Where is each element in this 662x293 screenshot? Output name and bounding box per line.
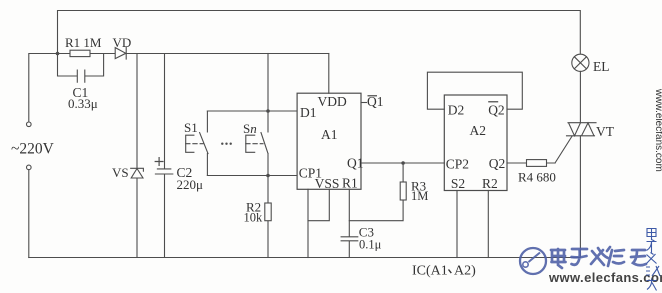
lamp EL bbox=[572, 54, 589, 71]
svg-text:R4 680: R4 680 bbox=[518, 170, 556, 185]
svg-text:VT: VT bbox=[596, 124, 615, 139]
node R3 junction bbox=[401, 161, 405, 165]
switch Sn actuator dashed link bbox=[246, 143, 263, 145]
svg-text:Q1: Q1 bbox=[347, 155, 364, 170]
svg-text:CP2: CP2 bbox=[446, 157, 469, 172]
svg-text:A2: A2 bbox=[470, 123, 487, 138]
svg-text:VSS: VSS bbox=[315, 176, 340, 191]
plus sign of C2 bbox=[155, 158, 163, 166]
wire EL to VT bbox=[579, 71, 581, 122]
svg-text:Q2: Q2 bbox=[489, 156, 506, 171]
wire S2 drop bbox=[456, 191, 458, 258]
svg-text:Sn: Sn bbox=[243, 121, 257, 136]
svg-text:R1 1M: R1 1M bbox=[65, 35, 102, 50]
resistor R4 bbox=[507, 162, 555, 164]
wire top bus bbox=[58, 11, 581, 55]
op-amp U A2 box bbox=[444, 95, 507, 191]
wire main horizontal rail bbox=[29, 54, 329, 123]
svg-text:S2: S2 bbox=[451, 176, 465, 191]
svg-text:0.33μ: 0.33μ bbox=[68, 96, 98, 111]
wire R2pin drop bbox=[487, 191, 489, 258]
resistor R2 bbox=[267, 176, 269, 258]
wire VDD drop bbox=[328, 54, 330, 94]
svg-text:VS: VS bbox=[112, 165, 129, 180]
svg-text:VDD: VDD bbox=[318, 94, 347, 109]
dots ellipsis between switches bbox=[221, 143, 232, 145]
zener VS bbox=[131, 54, 144, 258]
svg-text:IC(A1: IC(A1 bbox=[412, 264, 448, 279]
svg-text:220μ: 220μ bbox=[177, 177, 204, 192]
node switch bottom rail junction bbox=[266, 174, 270, 178]
svg-text:www.elecfans.com: www.elecfans.com bbox=[653, 88, 662, 172]
svg-text:S1: S1 bbox=[184, 120, 198, 135]
wire VSS drop bbox=[307, 189, 309, 257]
wire ground rail bbox=[29, 257, 581, 259]
svg-text:0.1μ: 0.1μ bbox=[359, 237, 382, 251]
resistor R3 bbox=[349, 163, 403, 221]
wire lower terminal to ground rail bbox=[28, 170, 30, 258]
capacitor C1 bbox=[58, 54, 104, 83]
pin Q1bar stub bbox=[361, 102, 367, 104]
terminal lower bbox=[27, 165, 32, 170]
wire VT to ground rail bbox=[579, 136, 581, 258]
svg-text:D2: D2 bbox=[448, 103, 465, 118]
switch Sn bbox=[246, 111, 268, 176]
svg-text:1M: 1M bbox=[411, 189, 428, 203]
wire VSS hook bbox=[308, 189, 329, 220]
svg-text:D1: D1 bbox=[300, 105, 317, 120]
switch S1 bbox=[186, 111, 208, 176]
node switch top rail junction bbox=[266, 109, 270, 113]
capacitor C3 bbox=[341, 189, 358, 257]
svg-text:A1: A1 bbox=[321, 127, 338, 142]
wire Q2bar feedback hook to D2 bbox=[427, 72, 522, 109]
capacitor C2 bbox=[155, 54, 172, 258]
svg-text:R1: R1 bbox=[342, 176, 358, 191]
resistor R1 bbox=[70, 50, 90, 56]
wire gate diagonal to VT bbox=[555, 136, 572, 163]
terminal upper bbox=[27, 122, 32, 127]
wire Q1 to CP2 bbox=[361, 162, 444, 164]
wire CP1 rail bbox=[207, 175, 297, 177]
node junction main-left bbox=[56, 52, 60, 56]
svg-text:VD: VD bbox=[113, 35, 132, 50]
triac VT bbox=[567, 123, 597, 136]
svg-text:~220V: ~220V bbox=[11, 141, 55, 158]
watermark vertical brand right edge bbox=[646, 229, 660, 291]
diode VD bbox=[115, 47, 126, 59]
op-amp U A1 box bbox=[297, 93, 361, 189]
svg-text:www.elecfans.com: www.elecfans.com bbox=[548, 270, 662, 285]
wire D1 rail bbox=[207, 110, 297, 112]
wire +V drop to switch rail bbox=[267, 54, 269, 112]
svg-text:Q2: Q2 bbox=[488, 103, 505, 118]
svg-text:EL: EL bbox=[593, 59, 610, 74]
svg-text:R2: R2 bbox=[482, 176, 498, 191]
svg-text:A2): A2) bbox=[454, 264, 476, 279]
watermark logo circle bottom right bbox=[520, 248, 546, 274]
switch S1 actuator dashed link bbox=[186, 143, 203, 145]
watermark brand text bottom right bbox=[551, 247, 646, 268]
svg-text:10k: 10k bbox=[244, 211, 264, 225]
